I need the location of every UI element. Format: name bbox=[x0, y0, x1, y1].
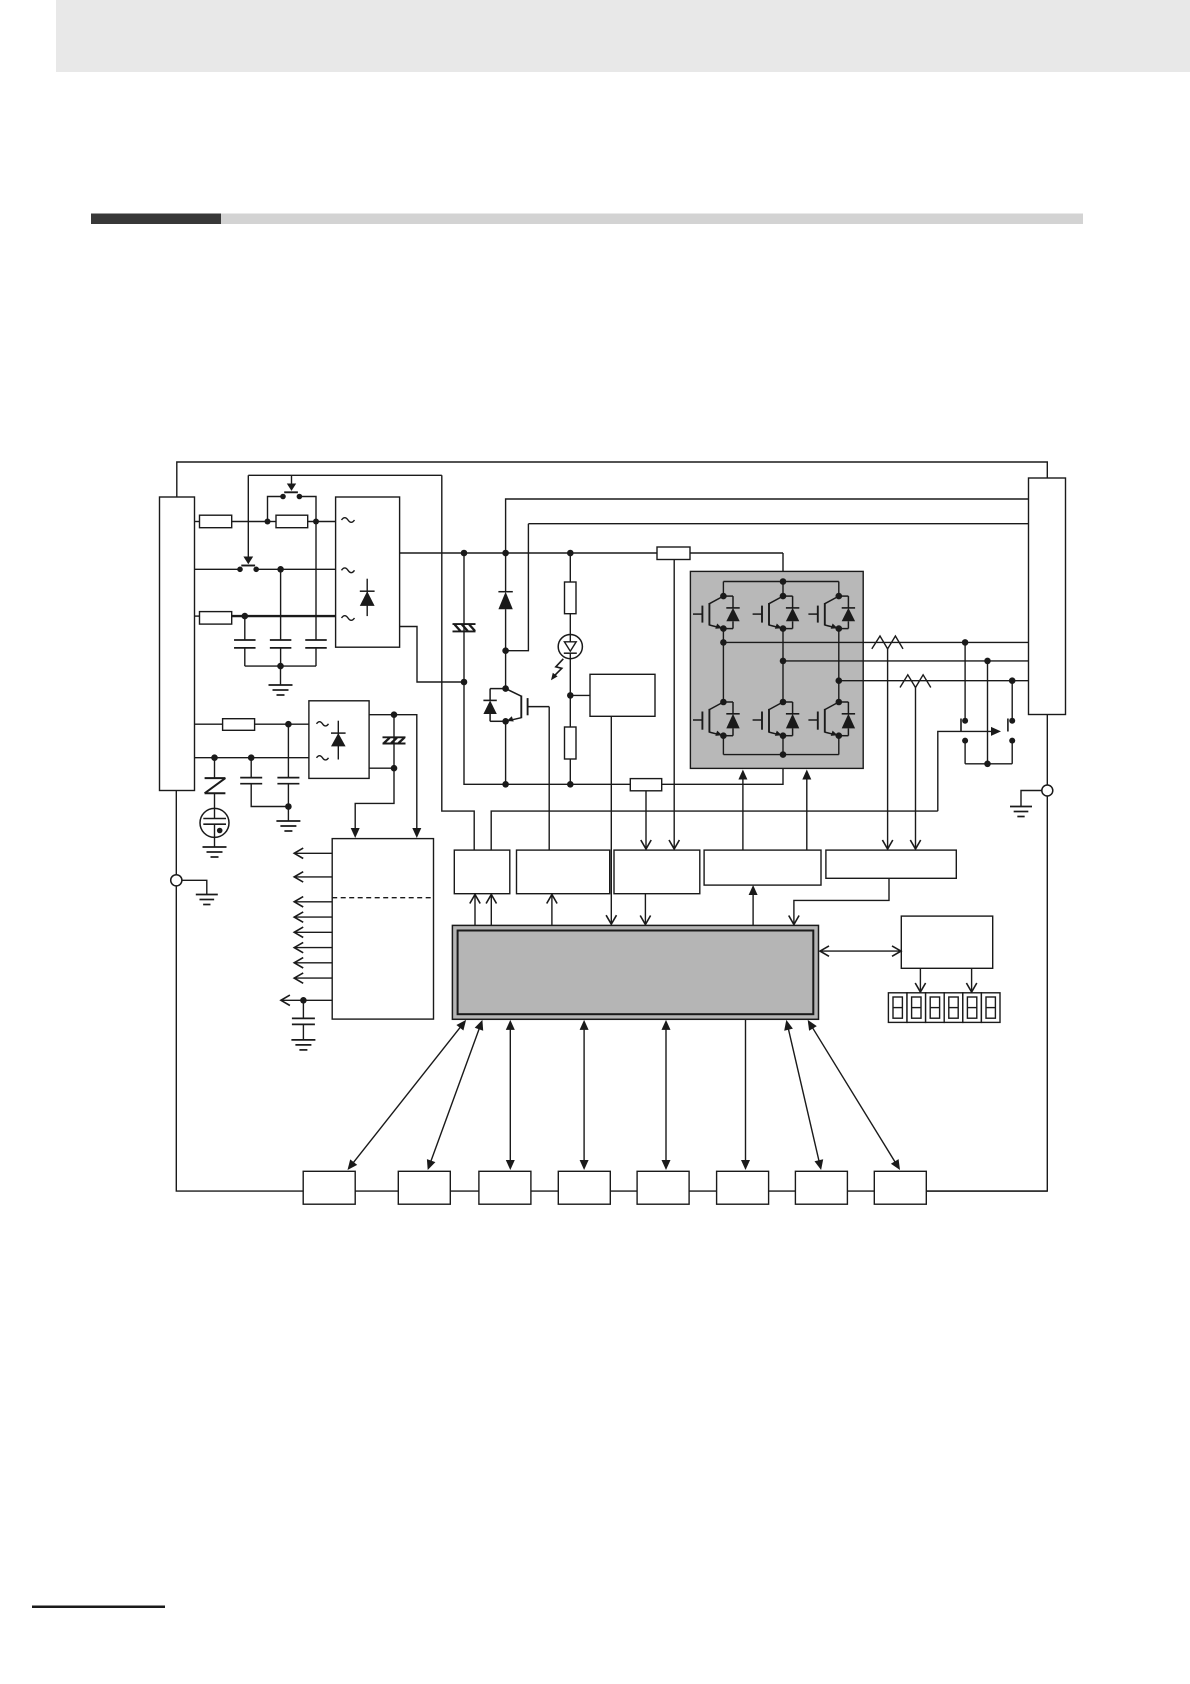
resistor R2 row1 inrush bbox=[276, 515, 308, 528]
title rule light segment bbox=[221, 214, 1083, 225]
arrow CPU-option4 bbox=[580, 1020, 589, 1170]
option block 4 bbox=[558, 1171, 610, 1204]
capacitor C1 input filter bbox=[234, 616, 256, 666]
arrester Z1 surge bbox=[205, 758, 226, 809]
IGBT module power block bbox=[690, 571, 863, 768]
wire CPU to driver A link2 bbox=[486, 895, 496, 926]
wire row3 L3 bbox=[195, 613, 336, 620]
arrow CPU-option1 bbox=[348, 1020, 467, 1170]
wire gate drive 2 to module bbox=[802, 770, 811, 851]
wire SMPS output 2 bbox=[294, 872, 332, 882]
driver block E current input bbox=[826, 850, 956, 878]
rectifier D2 control bbox=[309, 701, 369, 779]
wire SMPS output 9 bbox=[281, 995, 332, 1005]
arrow CPU-option3 bbox=[506, 1020, 515, 1170]
wire display to 7seg 2 bbox=[966, 968, 976, 992]
resistor R8 control feed bbox=[223, 719, 255, 731]
resistor R5 charge-lamp lower bbox=[565, 695, 577, 784]
ground G3 X-cap bbox=[276, 821, 300, 831]
title rule dark segment bbox=[91, 214, 221, 225]
capacitor C6 SMPS output bbox=[292, 1000, 315, 1040]
ground G7 output earth bbox=[1010, 807, 1032, 817]
wire TB2 down to option bbox=[926, 796, 1047, 1191]
wire contactor coil drop to MC bypass contact bbox=[284, 475, 298, 492]
ground G1 input filter bbox=[269, 685, 293, 695]
wire CPU to driver B link bbox=[547, 895, 557, 926]
wire earth branch left bbox=[182, 880, 207, 894]
wire row4 control feed bbox=[195, 721, 309, 728]
wire contactor coil drop to MC contact row2 bbox=[241, 475, 255, 565]
arrow CPU-option8 bbox=[808, 1020, 900, 1170]
driver block C current detect bbox=[614, 850, 700, 894]
arrow CPU-option6 bbox=[741, 1019, 750, 1170]
contact MC1 bypass contact bbox=[268, 494, 317, 522]
isolation element TH2 bbox=[383, 715, 406, 769]
wire left drop to option bus bbox=[176, 886, 303, 1191]
thermistor isolation element TH1 across bus bbox=[453, 553, 476, 682]
wire SMPS output 5 bbox=[294, 927, 332, 937]
wire CPU to display bus bbox=[820, 946, 901, 956]
wire gate drive 1 to module bbox=[738, 770, 747, 851]
LED D4 charge lamp bbox=[558, 614, 582, 696]
lamp flash arrow bbox=[551, 659, 563, 680]
wire CPU to driver D link bbox=[749, 885, 758, 925]
wire option bus bbox=[303, 1190, 1047, 1192]
wire driver C to CPU link bbox=[640, 894, 650, 925]
display interface block bbox=[901, 916, 992, 968]
resistor R3 row3 inrush bbox=[200, 612, 232, 625]
wire +1/P terminal link bbox=[506, 499, 1029, 553]
node lamp tap bbox=[567, 692, 590, 699]
option block 6 bbox=[717, 1171, 769, 1204]
contact K2 relay bbox=[1008, 718, 1015, 744]
option block 8 bbox=[874, 1171, 926, 1204]
wire DC- down to common bus bbox=[464, 682, 630, 788]
wire RB braking terminal link bbox=[506, 524, 1029, 651]
capacitor C4 X-cap bbox=[240, 758, 288, 807]
arrow CPU-option2 bbox=[427, 1020, 483, 1170]
wire braking emitter bbox=[505, 722, 507, 785]
wire row1 L1 bbox=[195, 519, 336, 525]
CPU block bbox=[452, 925, 818, 1019]
option block 7 bbox=[795, 1171, 847, 1204]
option block 3 bbox=[479, 1171, 531, 1204]
capacitor C2 input filter bbox=[270, 569, 292, 666]
wire DC+ bus bbox=[400, 550, 783, 582]
terminal block TB2 output bbox=[1029, 478, 1066, 715]
contact MC2 line contact bbox=[237, 567, 259, 573]
wire SMPS output 4 bbox=[294, 912, 332, 922]
capacitor C5 X-cap bbox=[277, 724, 299, 821]
contact K1 relay bbox=[961, 718, 968, 744]
wire braking collector bbox=[505, 651, 507, 689]
wire driver E to CPU link bbox=[789, 878, 889, 924]
wire control DC feed B bbox=[351, 765, 398, 838]
wire SMPS output 8 bbox=[294, 973, 332, 983]
wire output U bbox=[720, 639, 1028, 646]
wire row2 L2 bbox=[195, 566, 336, 573]
transistor Q6 lower IGBT bbox=[808, 699, 855, 739]
wire output W bbox=[836, 677, 1029, 684]
wire capacitor common bus bbox=[245, 663, 316, 685]
terminal E1 earth circle bbox=[171, 875, 182, 886]
arrow CPU-option7 bbox=[784, 1020, 823, 1170]
option block 1 bbox=[303, 1171, 355, 1204]
wire contact common bbox=[965, 741, 1012, 768]
wire V tap through contacts bbox=[987, 661, 989, 764]
wire module P bus bbox=[723, 578, 838, 596]
terminal block TB1 power input bbox=[160, 497, 195, 791]
wire DC- from rectifier bbox=[400, 627, 468, 686]
ground G5 SMPS bbox=[291, 1040, 315, 1050]
resistor R6 P-bus sense bbox=[657, 547, 690, 560]
wire P-sense tap to current detect bbox=[669, 560, 679, 850]
wire N bus from shunt to module bbox=[662, 768, 783, 784]
wire shunt tap to current detect bbox=[641, 791, 651, 849]
wire W tap to relay contact bbox=[1011, 681, 1013, 721]
transistor Q7 braking IGBT bbox=[483, 685, 549, 724]
power supply block SMPS bbox=[332, 839, 433, 1020]
footer rule bbox=[32, 1606, 165, 1609]
wire SMPS output 6 bbox=[294, 942, 332, 952]
transistor Q5 lower IGBT bbox=[753, 699, 800, 739]
wire braking gate to driver bbox=[548, 707, 550, 851]
ground G2 arrester bbox=[203, 847, 227, 857]
wire U tap to relay contact bbox=[964, 642, 966, 720]
wire SMPS output 1 bbox=[294, 848, 332, 858]
wire relay actuation arrow bbox=[938, 727, 1001, 811]
driver block B brake gate driver bbox=[517, 850, 610, 894]
wire contactor control line bbox=[248, 474, 441, 476]
rectifier bridge D1 bbox=[336, 497, 400, 647]
current sensor CT2 on W bbox=[900, 675, 931, 849]
wire module N bus bbox=[723, 736, 838, 758]
transistor Q2 upper IGBT bbox=[753, 593, 800, 632]
wire phase risers bbox=[723, 629, 838, 702]
wire relay-driver riser bbox=[442, 475, 474, 850]
wire control DC feed A bbox=[369, 711, 421, 838]
7-segment display digits bbox=[888, 993, 1000, 1023]
option block 5 bbox=[637, 1171, 689, 1204]
wire earth branch bbox=[1021, 791, 1042, 807]
transistor Q3 upper IGBT bbox=[808, 593, 855, 632]
wire output V bbox=[780, 658, 1029, 665]
wire SMPS output 7 bbox=[294, 958, 332, 968]
wire CPU to driver A link1 bbox=[470, 895, 480, 926]
resistor R1 row1 inrush bbox=[200, 515, 232, 528]
terminal E earth circle bbox=[1042, 785, 1053, 796]
wire TB2 earth lead bbox=[1046, 715, 1048, 786]
page header band bbox=[56, 0, 1190, 72]
wire top bus R/L1 to output terminal bbox=[177, 462, 1048, 497]
discharge tube E1 bbox=[200, 808, 229, 847]
diode D3 braking freewheel bbox=[498, 553, 512, 654]
driver block D gate driver bbox=[704, 850, 821, 885]
wire TB1 earth leg bbox=[175, 791, 177, 875]
arrow CPU-option5 bbox=[662, 1020, 671, 1170]
voltage detect block U2 bbox=[590, 674, 655, 716]
capacitor C3 input filter bbox=[305, 522, 327, 667]
resistor R4 charge-lamp upper bbox=[565, 553, 577, 614]
option block 2 bbox=[398, 1171, 450, 1204]
transistor Q1 upper IGBT bbox=[693, 593, 740, 632]
wire voltage detect to CPU bbox=[606, 716, 616, 924]
resistor R7 shunt bbox=[630, 779, 661, 791]
wire relay driver output riser bbox=[491, 811, 938, 850]
ground G4 chassis bbox=[196, 895, 218, 905]
wire SMPS output 3 bbox=[294, 897, 332, 907]
wire display to 7seg 1 bbox=[915, 968, 925, 992]
wire row5 neutral feed bbox=[195, 754, 309, 761]
transistor Q4 lower IGBT bbox=[693, 699, 740, 739]
driver block A relay driver bbox=[454, 850, 510, 894]
current sensor CT1 on U bbox=[872, 636, 903, 849]
